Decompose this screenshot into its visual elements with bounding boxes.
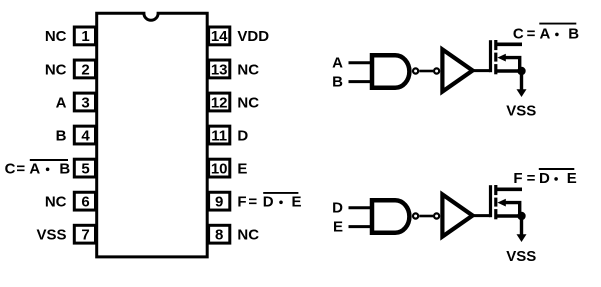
Q2 body connection wire (504, 203, 520, 216)
svg-text:E: E (333, 219, 343, 236)
Q2 body arrowhead (497, 199, 505, 207)
svg-text:B: B (56, 127, 67, 144)
MOSFET Q1 channel segment middle (494, 53, 497, 62)
pin 4 box (74, 126, 95, 144)
pin 9 label F = D·E (inverted) (237, 193, 301, 211)
pin 3 box (74, 93, 95, 111)
Q2 drain wire (output F) (496, 188, 522, 192)
svg-text:2: 2 (81, 61, 89, 78)
pin 1 box (74, 27, 95, 45)
junction dot source/body node (517, 67, 525, 75)
pin 5 box (74, 159, 95, 177)
Q2 source wire (496, 214, 522, 217)
svg-text:13: 13 (211, 61, 228, 78)
NAND G1 output inversion bubble (413, 68, 418, 73)
output label C = A·B (inverted) (513, 24, 579, 43)
pin 11 box (209, 126, 230, 144)
svg-text:NC: NC (237, 61, 259, 78)
MOSFET Q1 gate bar (489, 40, 492, 72)
svg-text:5: 5 (81, 160, 89, 177)
svg-text:VSS: VSS (506, 248, 536, 265)
Q1 drain wire (output C) (496, 42, 522, 46)
NAND G2 output inversion bubble (413, 213, 418, 218)
pin 12 box (209, 93, 230, 111)
pin 6 box (74, 192, 95, 210)
wire buffer to Q2 gate (473, 214, 490, 217)
wire input D (349, 206, 373, 209)
wire input E (349, 225, 373, 228)
svg-text:8: 8 (215, 227, 223, 244)
svg-text:A: A (332, 55, 343, 72)
wire to VSS 1 (520, 71, 523, 90)
pin 9 box (209, 192, 230, 210)
svg-text:D: D (263, 193, 274, 210)
wire G1 bubble to buffer bubble (419, 70, 433, 73)
Q1 body connection wire (504, 58, 520, 71)
svg-text:D: D (332, 200, 343, 217)
wire buffer to Q1 gate (473, 69, 490, 72)
pin 2 box (74, 60, 95, 78)
svg-text:A: A (29, 160, 40, 177)
svg-text:B: B (568, 26, 579, 43)
NAND gate G2 body (372, 200, 409, 233)
output label F = D·E (inverted) (513, 169, 576, 187)
Q1 body arrowhead (497, 54, 505, 62)
NAND gate G1 body (372, 55, 409, 88)
Q1 source wire (496, 69, 522, 72)
MOSFET Q2 channel segment middle (494, 198, 497, 207)
MOSFET Q2 channel segment bottom (494, 209, 497, 219)
svg-text:NC: NC (237, 227, 259, 244)
svg-text:B: B (59, 160, 70, 177)
MOSFET Q2 channel segment top (494, 185, 497, 195)
svg-text:=: = (527, 170, 536, 187)
junction dot source/body node 2 (517, 212, 525, 220)
svg-text:3: 3 (81, 94, 89, 111)
svg-text:E: E (567, 170, 577, 187)
buffer input inversion bubble (434, 68, 439, 73)
svg-text:F: F (513, 170, 522, 187)
pin 10 box (209, 159, 230, 177)
svg-text:=: = (527, 26, 536, 43)
svg-text:D: D (539, 170, 550, 187)
svg-text:12: 12 (211, 94, 228, 111)
svg-text:A: A (56, 94, 67, 111)
svg-text:E: E (237, 160, 247, 177)
svg-text:4: 4 (81, 127, 90, 144)
wire G2 bubble to buffer bubble (419, 215, 433, 218)
svg-text:B: B (332, 74, 343, 91)
svg-text:VSS: VSS (506, 103, 536, 120)
MOSFET Q1 channel segment top (494, 40, 497, 50)
wire input B (349, 80, 373, 83)
IC package U1 body with pin-1 notch (97, 13, 208, 257)
svg-text:=: = (16, 160, 25, 177)
svg-text:6: 6 (81, 193, 89, 210)
svg-text:7: 7 (81, 227, 89, 244)
buffer/driver triangle 2 (442, 194, 472, 236)
VSS arrowhead 1 (517, 89, 527, 97)
wire to VSS 2 (520, 216, 523, 235)
svg-text:9: 9 (215, 193, 223, 210)
wire input A (349, 61, 373, 64)
pin 7 box (74, 225, 95, 243)
VSS arrowhead 2 (517, 234, 527, 242)
pin 13 box (209, 60, 230, 78)
MOSFET Q1 channel segment bottom (494, 64, 497, 74)
svg-text:11: 11 (211, 127, 227, 144)
pin 14 box (209, 27, 230, 45)
pin 8 box (209, 225, 230, 243)
svg-text:NC: NC (45, 193, 67, 210)
svg-text:F: F (237, 193, 246, 210)
svg-text:A: A (540, 26, 551, 43)
buffer 2 input inversion bubble (434, 213, 439, 218)
svg-text:VSS: VSS (36, 227, 66, 244)
svg-text:C: C (5, 160, 16, 177)
buffer/driver triangle 1 (442, 49, 472, 91)
svg-text:14: 14 (211, 28, 228, 45)
svg-text:D: D (237, 127, 248, 144)
MOSFET Q2 gate bar (489, 185, 492, 217)
svg-text:=: = (248, 193, 257, 210)
svg-text:10: 10 (211, 160, 228, 177)
svg-text:NC: NC (45, 28, 67, 45)
svg-text:C: C (513, 26, 524, 43)
svg-text:NC: NC (237, 94, 259, 111)
svg-text:1: 1 (81, 28, 89, 45)
svg-text:NC: NC (45, 61, 67, 78)
pin 5 label C = A·B (inverted) (5, 160, 71, 177)
svg-text:E: E (292, 193, 302, 210)
svg-text:VDD: VDD (237, 28, 269, 45)
